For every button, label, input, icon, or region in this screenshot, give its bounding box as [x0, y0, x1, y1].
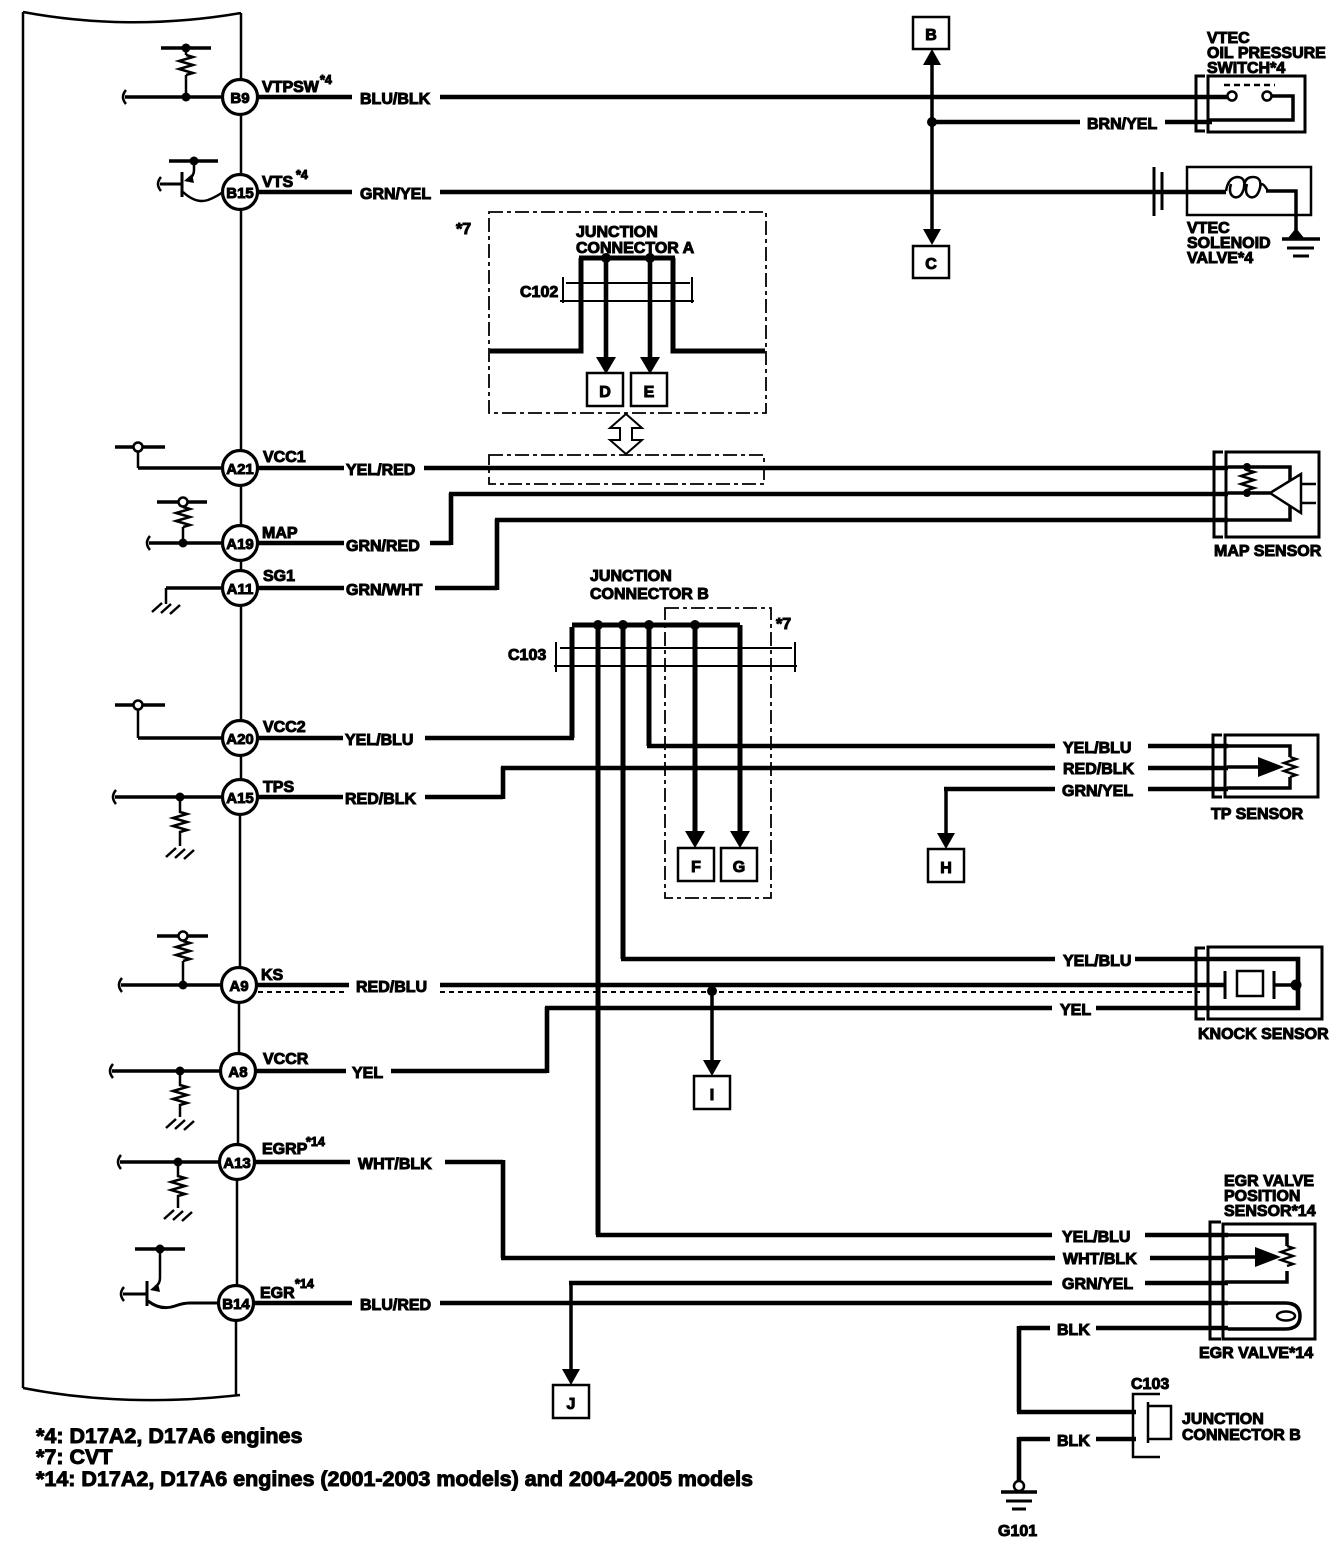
- pin A13: [220, 1145, 255, 1180]
- svg-text:F: F: [691, 859, 701, 876]
- wire shield to I: [710, 991, 714, 1062]
- svg-text:GRN/YEL: GRN/YEL: [1062, 1276, 1133, 1293]
- MAP sensor U2: [1214, 452, 1223, 537]
- svg-text:YEL/RED: YEL/RED: [346, 462, 415, 479]
- svg-text:*7: *7: [776, 616, 791, 633]
- connector box H: [928, 849, 964, 882]
- resistor at pin A15: [173, 797, 187, 846]
- svg-text:MAP SENSOR: MAP SENSOR: [1214, 543, 1322, 560]
- junction connector A enclosure (*7): [489, 212, 766, 413]
- EGR valve position sensor U5: [1210, 1222, 1221, 1339]
- wire A11 internal: [166, 586, 223, 590]
- chassis ground at A13: [164, 1210, 192, 1221]
- svg-text:VCC1: VCC1: [263, 449, 306, 466]
- resistor at pin A8: [173, 1071, 187, 1117]
- svg-text:J: J: [567, 1396, 576, 1413]
- wiper arrow in EGR position sensor: [1225, 1255, 1255, 1259]
- svg-text:A21: A21: [226, 461, 254, 478]
- svg-text:TPS: TPS: [263, 779, 294, 796]
- svg-text:GRN/WHT: GRN/WHT: [346, 582, 423, 599]
- node on shield line: [707, 986, 717, 996]
- svg-text:D: D: [599, 384, 611, 401]
- junction connector A bus bar: [579, 256, 675, 261]
- svg-text:VTS: VTS: [262, 174, 293, 191]
- wire BLU/RED from B14 to EGR valve: [253, 1301, 1228, 1306]
- wire A8 internal: [112, 1069, 221, 1073]
- svg-text:A13: A13: [223, 1155, 251, 1172]
- svg-text:RED/BLK: RED/BLK: [1063, 761, 1135, 778]
- svg-text:JUNCTION: JUNCTION: [590, 568, 672, 585]
- harness enclosure (dashed) on YEL/RED: [489, 455, 764, 484]
- svg-text:B: B: [925, 27, 937, 44]
- node junction on B9 wire: [182, 93, 191, 102]
- svg-text:JUNCTION: JUNCTION: [576, 224, 658, 241]
- wire from bus A right to enclosure edge: [673, 258, 765, 351]
- connector box E: [631, 373, 667, 406]
- svg-text:RED/BLK: RED/BLK: [345, 791, 417, 808]
- wire YEL/RED from A21 to MAP sensor: [257, 466, 1228, 471]
- svg-text:*4: *4: [320, 73, 332, 87]
- resistor at pin A13: [171, 1162, 185, 1208]
- svg-text:MAP: MAP: [262, 525, 298, 542]
- wire BRN/YEL branch: [932, 120, 1212, 125]
- resistor at pin A9: [176, 941, 190, 961]
- svg-text:B9: B9: [230, 90, 249, 107]
- svg-text:*7: CVT: *7: CVT: [36, 1445, 112, 1469]
- svg-text:YEL/BLU: YEL/BLU: [1062, 1229, 1130, 1246]
- potentiometer resistor in TP sensor: [1284, 757, 1296, 777]
- pin A20: [223, 721, 258, 756]
- svg-text:JUNCTION: JUNCTION: [1182, 1411, 1264, 1428]
- svg-text:CONNECTOR B: CONNECTOR B: [1182, 1427, 1301, 1444]
- wiper arrow in TP sensor: [1227, 765, 1258, 769]
- chassis ground at A11: [152, 603, 180, 614]
- node on bus A: [601, 253, 611, 263]
- svg-text:VCCR: VCCR: [263, 1051, 309, 1068]
- svg-text:SG1: SG1: [263, 568, 295, 585]
- svg-text:CONNECTOR A: CONNECTOR A: [576, 240, 695, 257]
- potentiometer resistor in EGR position sensor: [1281, 1246, 1293, 1266]
- connector box I: [694, 1076, 730, 1109]
- wire WHT/BLK from A13 to EGR position sensor: [256, 1160, 1228, 1258]
- svg-text:BLU/RED: BLU/RED: [360, 1297, 431, 1314]
- pin A15: [223, 780, 258, 815]
- svg-text:C103: C103: [508, 647, 546, 664]
- svg-text:GRN/YEL: GRN/YEL: [360, 186, 431, 203]
- wire BLK from C103 to G101: [1019, 1437, 1136, 1481]
- pin A19: [223, 526, 258, 561]
- resistor in MAP sensor: [1241, 467, 1254, 493]
- svg-text:RED/BLU: RED/BLU: [356, 979, 427, 996]
- svg-text:C103: C103: [1131, 1376, 1169, 1393]
- wire to G: [738, 625, 743, 834]
- svg-text:A15: A15: [226, 790, 254, 807]
- svg-text:YEL/BLU: YEL/BLU: [1063, 740, 1131, 757]
- ground at solenoid valve: [1288, 228, 1304, 238]
- connector box B: [913, 17, 949, 49]
- svg-text:A11: A11: [227, 581, 254, 598]
- pin A9: [222, 968, 257, 1003]
- piezo element square: [1237, 971, 1263, 996]
- svg-text:G: G: [733, 859, 745, 876]
- svg-text:TP SENSOR: TP SENSOR: [1211, 806, 1304, 823]
- svg-text:A8: A8: [228, 1064, 247, 1081]
- connector C103: [554, 642, 797, 672]
- wire link between connectors B and C: [930, 60, 934, 232]
- wire YEL/BLU from A20 into junction B: [257, 736, 574, 741]
- bidirectional link arrow between junction A and harness: [610, 414, 642, 454]
- svg-text:WHT/BLK: WHT/BLK: [1063, 1251, 1137, 1268]
- svg-text:CONNECTOR B: CONNECTOR B: [590, 586, 709, 603]
- connector C103 (bottom): [1133, 1394, 1171, 1457]
- node on bus A: [645, 253, 655, 263]
- wire BLU/BLK from B9 to VTEC oil pressure switch: [257, 95, 1228, 100]
- shield line (dashed) of KS wire: [258, 991, 1200, 993]
- svg-text:GRN/RED: GRN/RED: [346, 538, 420, 555]
- svg-text:YEL/BLU: YEL/BLU: [345, 732, 413, 749]
- wire bus B to TP YEL/BLU: [647, 627, 652, 746]
- wire GRN/YEL TP sensor to H: [944, 787, 1228, 792]
- power rail symbol at pin A21: [115, 445, 165, 449]
- svg-text:EGR VALVE*14: EGR VALVE*14: [1199, 1345, 1313, 1362]
- wire YEL/BLU junction B to TP sensor: [647, 744, 1228, 749]
- junction connector B bus bar: [572, 623, 740, 628]
- wire A15 internal: [115, 795, 223, 799]
- node on B-C link at BRN/YEL tee: [927, 117, 937, 127]
- wire A13 internal: [120, 1160, 220, 1164]
- power rail symbol at pin B9: [161, 48, 211, 55]
- svg-text:YEL: YEL: [1060, 1002, 1091, 1019]
- svg-text:G101: G101: [998, 1523, 1037, 1540]
- svg-text:*14: *14: [306, 1135, 325, 1149]
- EGR valve solenoid: [1228, 1303, 1300, 1329]
- svg-text:A20: A20: [226, 731, 254, 748]
- wire to E: [648, 261, 653, 360]
- wire bus B to EGR YEL/BLU: [596, 627, 601, 1235]
- pin A11: [223, 571, 258, 606]
- wire RED/BLU (KS) from A9 to knock sensor: [257, 983, 1225, 988]
- wire GRN/YEL EGR position sensor to J: [569, 1281, 1228, 1286]
- svg-text:*14: *14: [295, 1277, 314, 1291]
- TP sensor U3: [1213, 735, 1222, 797]
- wire GRN/YEL from B15 to VTEC solenoid valve: [257, 190, 1226, 195]
- svg-text:VTPSW: VTPSW: [262, 79, 320, 96]
- wire A21 internal: [138, 466, 223, 470]
- chassis ground at A8: [166, 1119, 194, 1130]
- power rail symbol at pin B14: [135, 1247, 185, 1251]
- wire B9 internal: [125, 95, 223, 99]
- svg-text:VALVE*4: VALVE*4: [1187, 250, 1253, 267]
- svg-text:*4: *4: [296, 168, 308, 182]
- svg-text:WHT/BLK: WHT/BLK: [358, 1156, 432, 1173]
- wire YEL/BLU junction B to EGR position sensor: [596, 1233, 1228, 1238]
- svg-text:B14: B14: [222, 1296, 250, 1313]
- svg-text:C: C: [925, 256, 937, 273]
- resistor at pin B9: [179, 55, 193, 75]
- wire GRN/RED from A19 to MAP sensor: [257, 493, 1228, 545]
- wire VCC2 branch into bus B: [570, 627, 575, 738]
- pin B15: [223, 175, 258, 210]
- svg-text:E: E: [644, 384, 655, 401]
- svg-text:YEL: YEL: [352, 1065, 383, 1082]
- svg-text:KS: KS: [261, 967, 284, 984]
- wire bus B to knock YEL/BLU: [621, 627, 626, 959]
- inline connector (solenoid valve): [1153, 167, 1156, 216]
- svg-text:BLK: BLK: [1057, 1433, 1090, 1450]
- svg-text:A9: A9: [229, 978, 248, 995]
- knock sensor U4: [1196, 948, 1205, 1019]
- transistor Q (EGR driver) at B14: [123, 1249, 219, 1308]
- svg-text:SENSOR*14: SENSOR*14: [1224, 1203, 1316, 1220]
- knock element loop: [1209, 959, 1298, 1008]
- amplifier in MAP sensor: [1270, 474, 1301, 513]
- left electrode: [1224, 971, 1227, 999]
- wire YEL/BLU junction B to knock sensor: [621, 957, 1208, 962]
- power rail symbol at pin A20: [115, 703, 165, 707]
- svg-text:*14: D17A2, D17A6 engines (200: *14: D17A2, D17A6 engines (2001-2003 mod…: [36, 1467, 753, 1491]
- VTEC oil pressure switch U1: [1196, 76, 1305, 132]
- power rail symbol at pin A19: [157, 500, 207, 504]
- wire to F: [693, 627, 698, 834]
- svg-text:*7: *7: [456, 221, 471, 238]
- ground G101: [1014, 1481, 1024, 1491]
- transistor Q (VTS driver) at B15: [160, 161, 223, 201]
- connector box G: [721, 848, 757, 881]
- wire A19 internal: [149, 541, 223, 545]
- wire BLK from EGR valve to C103: [1019, 1326, 1228, 1331]
- pin B14: [219, 1286, 254, 1321]
- resistor at pin A19: [176, 507, 190, 527]
- connector C102: [560, 277, 694, 303]
- svg-text:H: H: [940, 860, 952, 877]
- svg-text:I: I: [710, 1087, 714, 1104]
- svg-text:GRN/YEL: GRN/YEL: [1062, 783, 1133, 800]
- wire GRN/WHT from A11 to MAP sensor: [257, 519, 1228, 590]
- svg-text:EGR: EGR: [260, 1285, 295, 1302]
- pin B9: [223, 80, 258, 115]
- junction connector B enclosure (*7): [665, 608, 771, 898]
- svg-text:BLK: BLK: [1057, 1322, 1090, 1339]
- connector box F: [678, 848, 714, 881]
- wire A20 internal: [138, 736, 223, 740]
- connector box J: [553, 1385, 589, 1418]
- power rail symbol at pin A9: [157, 934, 208, 938]
- pin A21: [223, 451, 258, 486]
- wire from bus A left to enclosure edge: [490, 258, 581, 351]
- pin A8: [221, 1054, 256, 1089]
- wire YEL from A8 to knock sensor: [256, 1007, 1208, 1073]
- svg-text:B15: B15: [226, 185, 254, 202]
- wire to D: [604, 261, 609, 360]
- power rail symbol at pin B15: [169, 159, 218, 163]
- svg-text:YEL/BLU: YEL/BLU: [1063, 953, 1131, 970]
- svg-text:BLU/BLK: BLU/BLK: [360, 91, 431, 108]
- svg-text:KNOCK SENSOR: KNOCK SENSOR: [1198, 1026, 1329, 1043]
- ECM connector strip (torn-edge band): [23, 12, 241, 1400]
- svg-text:C102: C102: [520, 284, 558, 301]
- svg-text:SWITCH*4: SWITCH*4: [1207, 60, 1285, 77]
- chassis ground at A15: [166, 848, 194, 859]
- wire RED/BLK from A15 to TP sensor: [257, 767, 1228, 799]
- right electrode: [1273, 971, 1276, 999]
- nodes on bus B: [593, 620, 603, 630]
- VTEC solenoid valve L1: [1187, 167, 1311, 215]
- svg-text:A19: A19: [226, 536, 254, 553]
- svg-text:VCC2: VCC2: [263, 719, 306, 736]
- svg-text:BRN/YEL: BRN/YEL: [1087, 116, 1157, 133]
- connector box C: [913, 246, 949, 278]
- wire A9 internal: [121, 983, 222, 987]
- svg-text:EGRP: EGRP: [262, 1141, 308, 1158]
- connector box D: [587, 373, 623, 406]
